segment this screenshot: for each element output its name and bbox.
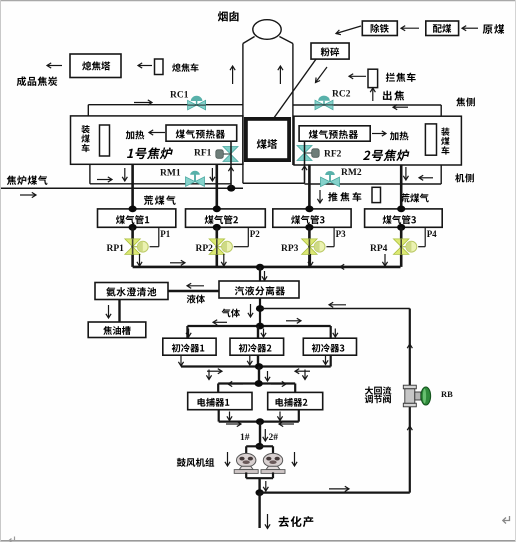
cooler feed 2 — [257, 326, 259, 338]
svg-text:RM1: RM1 — [160, 169, 181, 179]
blower 1# — [237, 453, 256, 467]
label 加热 oven2 — [390, 132, 399, 141]
svg-text:RC2: RC2 — [332, 90, 351, 100]
svg-text:P1: P1 — [160, 229, 170, 239]
P tap line P2 — [247, 227, 249, 246]
wire cooler to precip ring — [258, 367, 260, 384]
label 加热 oven1 — [126, 131, 135, 140]
downcomer to 煤气管3 — [308, 165, 311, 210]
gas spine from separator — [259, 298, 261, 326]
primary cooler box 初冷器1 — [163, 338, 216, 355]
svg-text:RF2: RF2 — [324, 150, 342, 160]
arrow 出焦 up — [372, 88, 374, 101]
wire bus to separator — [259, 267, 261, 281]
cooler feed 3 — [330, 326, 332, 338]
P tap line P4 — [424, 227, 426, 246]
precip ring bottom line — [219, 421, 299, 423]
cooler outlet 2 — [257, 355, 259, 366]
label 原煤 — [483, 25, 493, 34]
svg-text:P2: P2 — [250, 229, 260, 239]
node reflux junction — [256, 305, 264, 312]
label 出焦 — [383, 91, 392, 101]
svg-text:1#: 1# — [240, 433, 250, 443]
paragraph return mark — [503, 516, 510, 524]
svg-text:2#: 2# — [269, 433, 279, 443]
iron remover box 除铁 — [362, 21, 397, 36]
valve RF2 — [297, 146, 312, 154]
arrow below RP4 — [384, 254, 386, 266]
coal blending box 配煤 — [426, 21, 459, 36]
fuel link line to RF2 — [243, 182, 305, 184]
product line down 去化产 — [258, 493, 260, 528]
cooler feed 1 — [186, 326, 188, 338]
P tap line P3 — [333, 227, 335, 246]
precip outlet 2 — [298, 410, 300, 422]
reflux riser with RB — [409, 309, 411, 493]
pipe 煤气管3 to valve — [400, 227, 403, 267]
wire up-arrow left of chimney — [232, 66, 234, 84]
coke oven no.2 box — [294, 116, 461, 165]
arrow beside blower1 — [227, 452, 229, 466]
blower outlet manifold — [245, 472, 247, 478]
quench tower box 熄焦塔 — [70, 54, 121, 78]
valve RM2 — [321, 177, 331, 187]
quench car 熄焦车 — [155, 59, 164, 75]
gas pipe box 煤气管3 — [365, 209, 443, 227]
valve RC2 — [315, 100, 324, 110]
arrow to product coke — [47, 65, 62, 67]
gas preheater box oven2 煤气预热器 — [299, 126, 370, 141]
pusher car bar — [372, 187, 381, 202]
charging car bar oven2 — [425, 124, 436, 155]
valve RC1 — [188, 100, 197, 110]
arrow down RM1 area — [211, 168, 213, 181]
svg-text:RP1: RP1 — [107, 244, 125, 254]
fuel riser RF1 — [230, 141, 232, 188]
page edge top — [0, 0, 516, 2]
pipe 煤气管2 to valve — [216, 227, 219, 267]
gas preheater box oven1 煤气预热器 — [166, 125, 237, 141]
arrow into precip1 — [208, 370, 210, 380]
wire up-arrow inside chimney — [279, 66, 281, 84]
cooler outlet 3 — [330, 355, 332, 366]
label 焦侧 — [456, 97, 465, 106]
precip outlet 1 — [218, 410, 220, 422]
electrostatic precipitator box 电捕器1 — [188, 392, 252, 409]
liquid line to clarifier — [168, 290, 219, 292]
coal tower box 煤塔 — [246, 119, 289, 160]
label 装煤车 vertical oven2 — [441, 128, 449, 136]
svg-text:RP4: RP4 — [370, 244, 388, 254]
outlet line to reflux riser — [260, 492, 410, 494]
paragraph return mark bottom-left — [9, 537, 15, 542]
primary cooler box 初冷器3 — [303, 338, 356, 355]
arrow 配煤 to 除铁 — [401, 27, 419, 29]
cooler outlet 1 — [180, 355, 182, 366]
node blower outlet — [256, 489, 264, 496]
arrow below RP3 — [310, 254, 312, 266]
cooler ring bottom line — [181, 365, 331, 367]
downcomer to 煤气管2 — [216, 165, 219, 210]
node on gas main — [227, 185, 235, 192]
coke oven gas main 焦炉煤气 — [7, 175, 16, 184]
label 成品焦炭 — [17, 76, 26, 86]
blower inlet manifold — [246, 445, 273, 447]
precip ring top line — [218, 382, 295, 384]
label 机侧 — [455, 173, 464, 182]
valve RF1 — [223, 147, 238, 155]
coke guide car 拦焦车 — [368, 69, 378, 87]
svg-text:RM2: RM2 — [341, 168, 362, 178]
label 2号焦炉 — [363, 149, 410, 161]
gas pipe box 煤气管2 — [186, 209, 266, 227]
label 1号焦炉 — [127, 147, 174, 159]
primary cooler box 初冷器2 — [230, 338, 284, 355]
arrow beside blower2 — [294, 452, 296, 466]
pipe 煤气管3 to valve — [308, 227, 311, 267]
downcomer to 煤气管34 — [400, 165, 403, 210]
arrow into precip2 — [304, 370, 306, 380]
label 鼓风机组 — [177, 458, 186, 467]
arrow at 拦焦车 — [349, 75, 366, 77]
arrow down RM2 area — [405, 167, 407, 180]
tar tank box 焦油槽 — [88, 322, 146, 338]
chimney — [253, 20, 281, 40]
label 荒煤气 left — [144, 196, 153, 205]
big reflux line 大回流 — [260, 308, 410, 310]
coke-out line left with RC1 — [88, 104, 243, 106]
svg-text:RP3: RP3 — [281, 244, 299, 254]
pipe 煤气管1 to valve — [131, 227, 134, 267]
arrow 原煤 to 配煤 — [462, 27, 478, 29]
valve RP1 — [125, 239, 141, 247]
precip feed 1 — [217, 384, 219, 393]
arrow preheater to heating oven1 — [149, 132, 165, 134]
page edge left — [0, 0, 2, 542]
wire precip to blower manifold — [259, 422, 261, 447]
gas pipe box 煤气管1 — [98, 209, 176, 227]
coke-out line right with RC2 — [293, 104, 441, 106]
crusher box 粉碎 — [311, 43, 349, 59]
page edge bottom — [0, 540, 516, 542]
page edge right — [515, 0, 516, 542]
arrow beside downcomer1 — [124, 168, 126, 181]
svg-text:RF1: RF1 — [194, 149, 212, 159]
svg-text:P3: P3 — [336, 229, 346, 239]
valve RP2 — [209, 239, 225, 247]
arrow below RP1 — [139, 254, 141, 266]
electrostatic precipitator box 电捕器2 — [268, 392, 323, 409]
svg-text:RP2: RP2 — [196, 244, 214, 254]
wire 除铁 to 粉碎 diagonal — [336, 26, 361, 34]
valve RP3 — [302, 239, 318, 247]
tar line down — [118, 300, 120, 323]
label 大回流调节阀 — [365, 386, 373, 394]
label 装煤车 vertical — [81, 125, 89, 133]
valve RM1 — [186, 177, 196, 187]
waste gas line oven2 — [440, 165, 442, 184]
valve RP4 — [393, 239, 409, 247]
precip feed 2 — [294, 384, 296, 393]
ammonia clarifier box 氨水澄清池 — [95, 283, 168, 300]
valve RB — [403, 385, 416, 389]
label 推焦车 — [319, 190, 321, 203]
label 烟囱 — [218, 11, 228, 21]
P tap line P1 — [158, 227, 160, 246]
svg-text:RB: RB — [441, 389, 453, 399]
wire 粉碎 to 煤塔 diagonal — [274, 59, 317, 118]
svg-text:P4: P4 — [427, 229, 437, 239]
waste gas line oven1 — [89, 164, 91, 184]
svg-text:RC1: RC1 — [170, 91, 189, 101]
label 荒煤气 right — [401, 193, 410, 202]
vapor-liquid separator box 汽液分离器 — [219, 281, 299, 298]
blower 2# — [263, 453, 282, 467]
gas pipe box 煤气管3 — [273, 209, 351, 227]
node blower manifold — [255, 443, 263, 450]
arrow preheater to heating oven2 — [372, 133, 386, 135]
coke oven no.1 box — [71, 116, 243, 164]
downcomer to 煤气管1 — [131, 165, 134, 210]
arrow below RP2 — [223, 254, 225, 266]
raw gas bus line — [133, 266, 401, 269]
fuel riser RF2 — [304, 141, 306, 183]
cooler ring top line — [187, 325, 330, 327]
charging car bar oven1 — [100, 125, 110, 156]
arrow quench-car to tower — [138, 65, 152, 67]
